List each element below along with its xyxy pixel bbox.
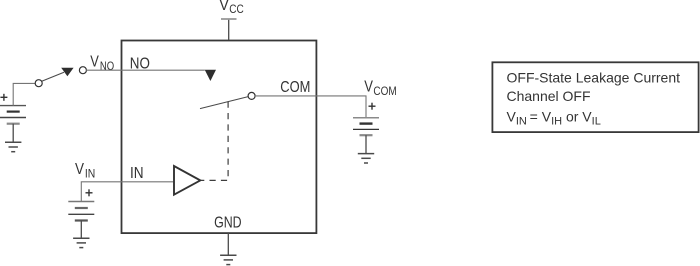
annotation box [492, 62, 698, 132]
plus sign B3 [86, 189, 93, 196]
VCC supply tick [221, 18, 237, 20]
svg-text:NO: NO [100, 59, 115, 73]
node VNO circle [79, 67, 86, 74]
svg-text:V: V [219, 0, 229, 14]
svg-text:Channel OFF: Channel OFF [507, 88, 591, 104]
wire VCC to box [228, 20, 230, 40]
battery B2 (VCOM source) [353, 118, 379, 154]
switch U1 channel blade [200, 97, 248, 109]
DUT box U1 [122, 41, 317, 234]
battery B1 (VNO source) [0, 106, 26, 143]
wire B1 to switch S1 [13, 83, 35, 105]
wire NO [86, 69, 205, 71]
ground (B2) [358, 154, 374, 163]
ground (B1) [5, 142, 21, 151]
switch U1 COM pole circle [248, 92, 255, 99]
svg-text:CC: CC [229, 2, 244, 16]
buffer driver A1 [174, 166, 200, 195]
svg-text:IN: IN [130, 165, 144, 182]
label VCOM [364, 79, 396, 99]
svg-text:NO: NO [130, 55, 150, 72]
label VCC [219, 0, 244, 16]
switch S1 blade [42, 72, 64, 81]
svg-text:V: V [90, 53, 99, 70]
wire GND [227, 233, 229, 255]
svg-text:V: V [75, 161, 85, 178]
battery B3 (VIN source) [68, 202, 94, 239]
dashed link switch to driver [201, 102, 228, 181]
svg-text:IN: IN [85, 166, 95, 180]
ground (B3) [73, 238, 89, 247]
arrowhead NO termination [205, 70, 216, 81]
switch S1 arrowhead [61, 68, 73, 77]
svg-text:V: V [364, 79, 373, 96]
svg-text:OFF-State Leakage Current: OFF-State Leakage Current [507, 69, 681, 85]
label VIN [75, 161, 95, 181]
svg-text:COM: COM [280, 79, 310, 96]
wire COM to VCOM battery [255, 96, 366, 118]
plus sign B2 [369, 103, 376, 110]
label VNO [90, 53, 114, 73]
svg-text:COM: COM [373, 84, 396, 98]
switch S1 pole [35, 80, 42, 87]
ground (GND pin) [220, 255, 236, 264]
svg-text:GND: GND [214, 214, 242, 231]
plus sign B1 [0, 94, 7, 101]
wire VIN to IN pin [81, 182, 173, 202]
